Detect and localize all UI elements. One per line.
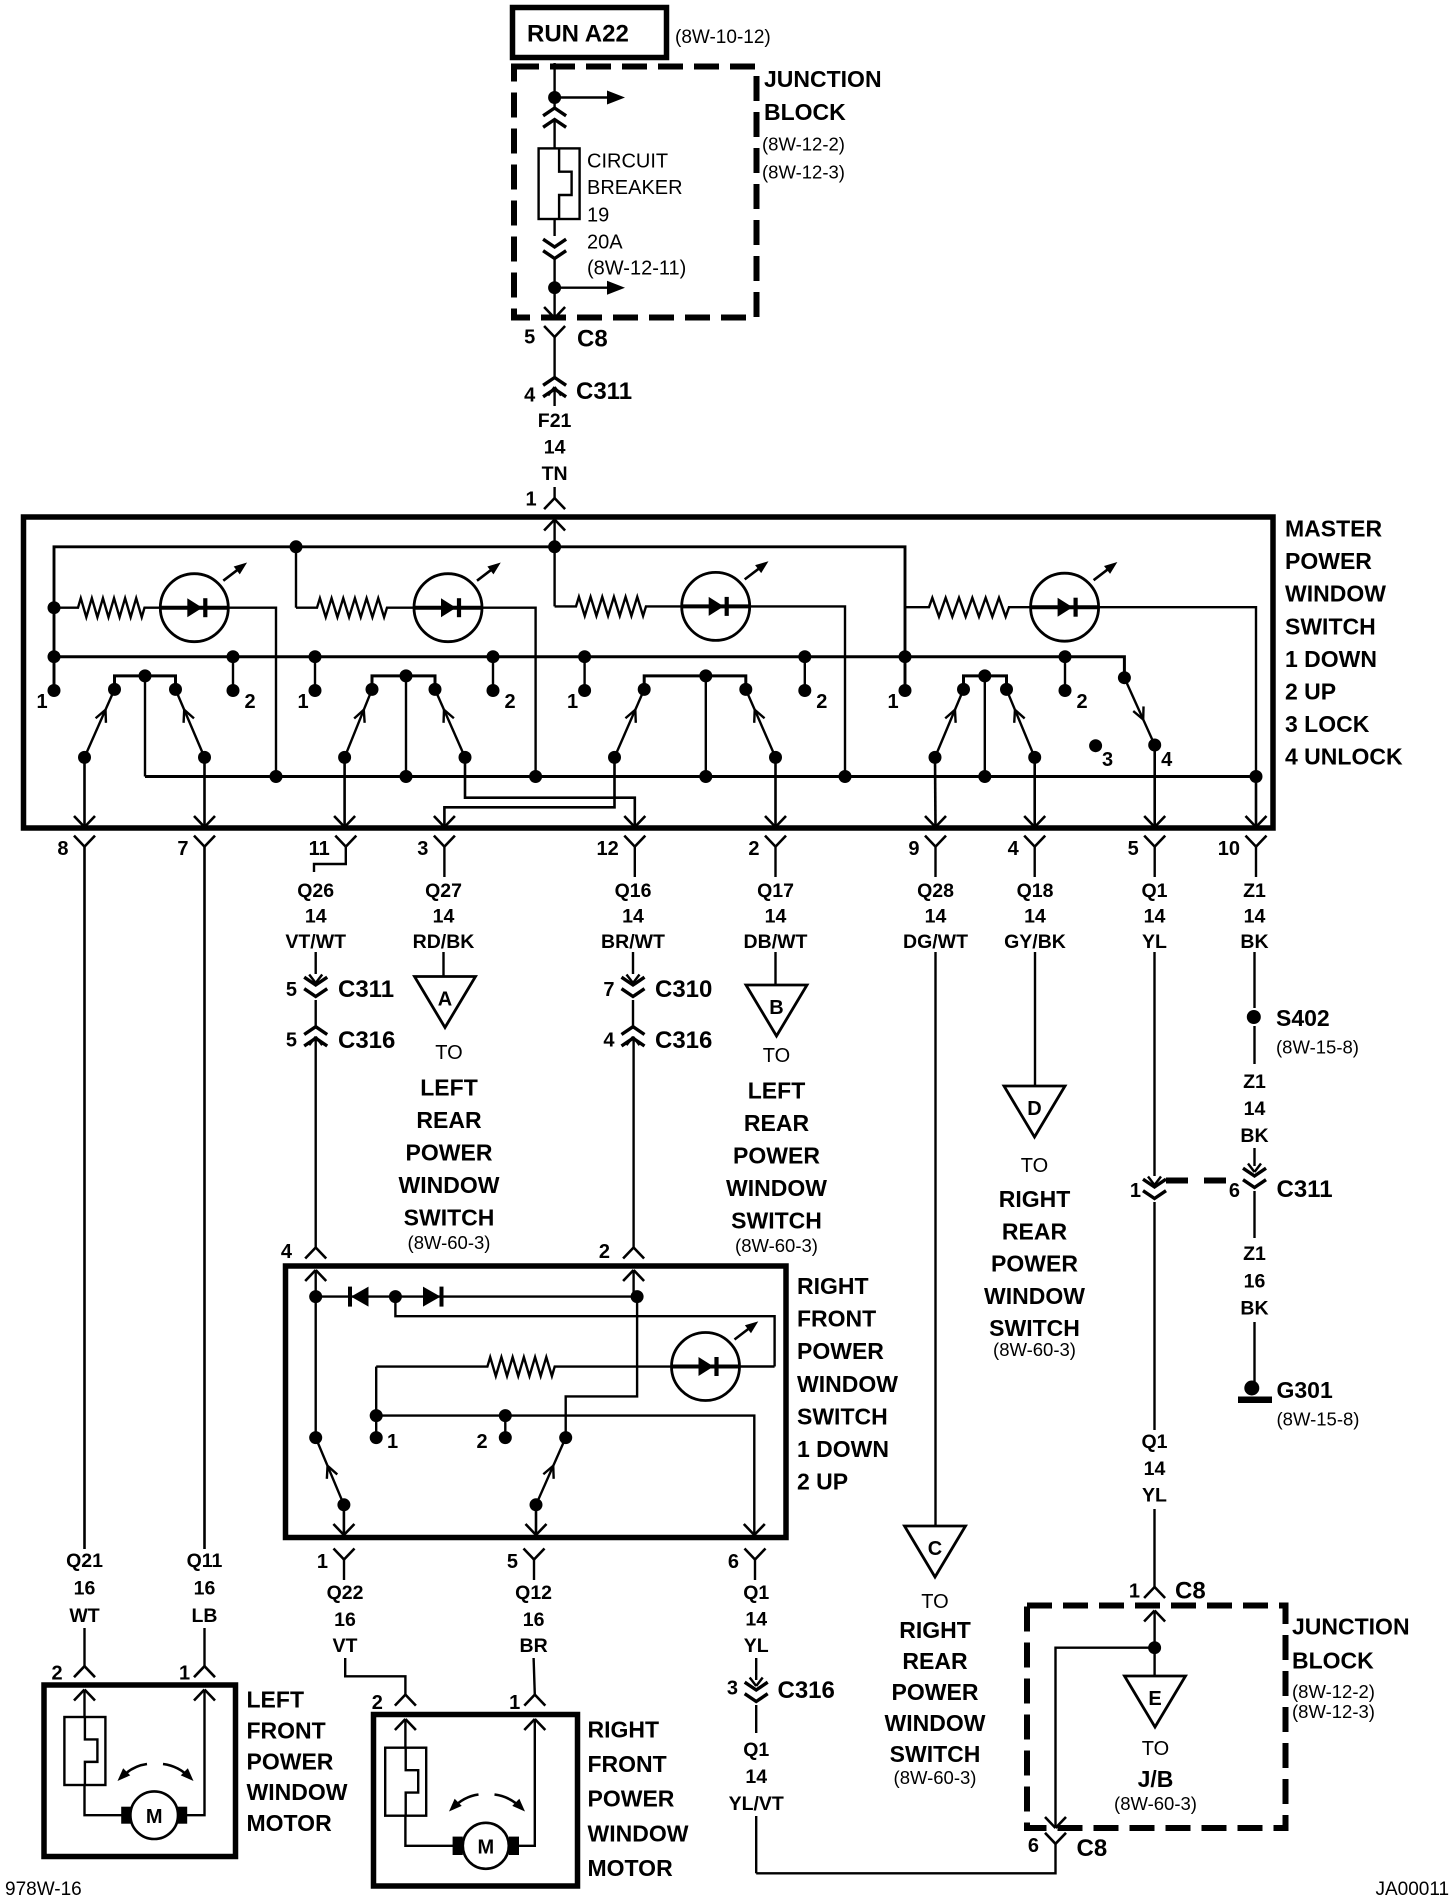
- off-page triangle C: [905, 1526, 966, 1577]
- svg-text:C311: C311: [1277, 1176, 1333, 1203]
- svg-text:4: 4: [1161, 749, 1173, 771]
- resistor unit2: [296, 598, 414, 617]
- wire rail1 to bottom bus: [144, 676, 146, 777]
- svg-text:YL: YL: [1142, 931, 1167, 953]
- motor circuit breaker (left): [64, 1717, 105, 1785]
- svg-text:C8: C8: [577, 326, 608, 353]
- motor M (left): [130, 1791, 178, 1839]
- wire resistor left lead down: [375, 1367, 377, 1416]
- dashed link to C311: [1166, 1178, 1188, 1184]
- terminal 2 stub: [499, 1409, 512, 1422]
- connector C311 pin 1 (Q1): [1148, 1177, 1155, 1186]
- wire to circuit breaker: [553, 121, 555, 148]
- svg-text:1: 1: [525, 489, 536, 511]
- svg-text:14: 14: [1144, 906, 1166, 928]
- svg-text:11: 11: [309, 838, 330, 860]
- arrow at motor box top (pin2): [74, 1690, 85, 1701]
- wire branch arrow right (upper): [555, 96, 607, 98]
- wire lamp3 output to bottom bus: [750, 606, 845, 776]
- svg-text:RIGHT: RIGHT: [899, 1617, 971, 1643]
- svg-text:8: 8: [57, 838, 68, 860]
- svg-text:1: 1: [317, 1551, 328, 1573]
- wire pin2 entry: [632, 1270, 634, 1297]
- wire pin4 stem: [1033, 847, 1035, 877]
- svg-text:MOTOR: MOTOR: [588, 1855, 674, 1881]
- svg-text:2: 2: [476, 1431, 487, 1453]
- switch arm right unit3: [746, 689, 776, 757]
- svg-text:TO: TO: [435, 1042, 462, 1064]
- node diode junction: [389, 1290, 402, 1303]
- switch arm lock/unlock (unit4 right): [1118, 671, 1131, 684]
- node top bus unit2: [290, 540, 303, 553]
- svg-text:14: 14: [305, 906, 327, 928]
- off-page triangle A: [415, 977, 476, 1028]
- switch rail unit3: [644, 676, 746, 690]
- connector chevrons (upper): [543, 108, 566, 116]
- off-page triangle B: [746, 985, 807, 1036]
- wire into junction block: [1153, 1611, 1155, 1677]
- illumination lamp (right front switch): [672, 1333, 740, 1401]
- svg-text:B: B: [769, 997, 783, 1019]
- wire pin 10 drop: [1255, 777, 1258, 828]
- terminal stub 2 at x804.8: [798, 650, 811, 663]
- motor M (right): [463, 1823, 509, 1869]
- terminal stub 2 at x233: [227, 650, 240, 663]
- svg-text:DB/WT: DB/WT: [744, 931, 808, 953]
- switch arm right unit1: [176, 689, 205, 757]
- svg-text:16: 16: [1244, 1271, 1266, 1293]
- svg-text:RIGHT: RIGHT: [999, 1186, 1071, 1212]
- svg-text:7: 7: [603, 979, 614, 1001]
- svg-text:Q1: Q1: [1141, 880, 1167, 902]
- svg-text:(8W-60-3): (8W-60-3): [1114, 1793, 1197, 1814]
- svg-text:2: 2: [244, 691, 255, 713]
- connector C311 pin 5 (Q26): [309, 975, 316, 984]
- wire pin2 into breaker (right): [404, 1719, 406, 1748]
- svg-text:2: 2: [504, 691, 515, 713]
- wire Q18 long: [1034, 952, 1036, 1086]
- connector C8 pin 1: [1144, 1587, 1155, 1598]
- svg-text:WINDOW: WINDOW: [247, 1779, 348, 1805]
- svg-text:4 UNLOCK: 4 UNLOCK: [1285, 744, 1403, 770]
- svg-text:RIGHT: RIGHT: [588, 1717, 660, 1743]
- wire pin2 vertical + jog to right switch: [566, 1297, 637, 1438]
- svg-text:2: 2: [748, 838, 759, 860]
- switch arm left unit3: [615, 689, 645, 757]
- junction block (bottom) dashed border: [1027, 1606, 1286, 1829]
- wire Q16 lower: [632, 1038, 634, 1248]
- terminal stub 1 at x54: [48, 650, 61, 663]
- svg-text:C316: C316: [338, 1027, 395, 1054]
- terminal stub 2 at x1065: [1059, 650, 1072, 663]
- circuit breaker 19 20A: [539, 148, 580, 219]
- wire Q27 to triangle A: [442, 952, 444, 977]
- svg-text:978W-16: 978W-16: [5, 1879, 82, 1900]
- node bottom bus x705.8: [699, 770, 712, 783]
- wire Q28 long: [934, 952, 936, 1526]
- bottom bus wire: [145, 775, 1256, 778]
- diode D1 (left-pointing): [351, 1287, 369, 1307]
- wire lamp2 output to bottom bus: [482, 608, 536, 777]
- wire pin7 stem: [203, 847, 206, 1549]
- svg-text:4: 4: [603, 1030, 615, 1052]
- wire pin5 stem: [1153, 847, 1155, 877]
- connector pin 5 below master switch: [1144, 836, 1155, 847]
- svg-text:1: 1: [179, 1663, 190, 1685]
- node J1: [548, 91, 561, 104]
- wire Q17 to triangle B: [774, 952, 776, 985]
- switch arm right unit4: [1007, 689, 1035, 757]
- wire pin12 stem: [634, 847, 636, 877]
- svg-text:D: D: [1027, 1098, 1041, 1120]
- svg-text:6: 6: [728, 1551, 739, 1573]
- wire pin 2 drop: [774, 758, 777, 827]
- node bottom bus x406: [400, 770, 413, 783]
- svg-text:16: 16: [194, 1578, 216, 1600]
- svg-text:Q21: Q21: [66, 1550, 103, 1572]
- wire unit3 feed: [553, 547, 555, 607]
- svg-text:Q22: Q22: [327, 1582, 364, 1604]
- svg-text:POWER: POWER: [1285, 548, 1372, 574]
- wire pin 3 drop (jog): [444, 758, 614, 827]
- wire motor to pin1: [178, 1690, 205, 1816]
- svg-text:WINDOW: WINDOW: [1285, 581, 1386, 607]
- terminal stub 1 at x584.6: [578, 650, 591, 663]
- svg-text:1 DOWN: 1 DOWN: [1285, 646, 1377, 672]
- arrow at motor box top (pin1): [194, 1690, 205, 1701]
- arrow at right motor box top (pin1): [524, 1719, 535, 1730]
- svg-text:(8W-15-8): (8W-15-8): [1276, 1037, 1359, 1058]
- off-page triangle D: [1004, 1086, 1065, 1137]
- resistor unit3: [555, 597, 682, 616]
- switch rail unit4: [964, 676, 1007, 690]
- svg-text:3: 3: [727, 1678, 738, 1700]
- svg-text:(8W-15-8): (8W-15-8): [1277, 1409, 1360, 1430]
- svg-text:4: 4: [1008, 838, 1020, 860]
- connector chevrons (lower): [543, 239, 566, 247]
- svg-text:CIRCUIT: CIRCUIT: [587, 151, 668, 173]
- wire rail2 to bottom bus: [405, 676, 407, 777]
- svg-text:5: 5: [524, 327, 535, 349]
- svg-text:12: 12: [597, 838, 619, 860]
- wire pin6 stem: [754, 1560, 756, 1581]
- svg-text:10: 10: [1218, 838, 1240, 860]
- connector pin 3 below master switch: [434, 836, 445, 847]
- wire Q16 mid: [632, 1000, 634, 1027]
- wire A22 feed into junction block: [553, 63, 555, 108]
- svg-text:LB: LB: [192, 1605, 218, 1627]
- terminal stub 1 at x905: [899, 650, 912, 663]
- contact dot 3 (lock): [1089, 739, 1102, 752]
- wire F21 14 TN: [553, 389, 555, 406]
- svg-text:POWER: POWER: [247, 1748, 334, 1774]
- wire Q26 upper: [315, 952, 317, 974]
- rotation arrows (right motor): [453, 1795, 479, 1809]
- connector pin 7 below master switch: [194, 836, 205, 847]
- wire Q1 upper: [1153, 952, 1155, 1176]
- wire pin2 into breaker: [83, 1690, 85, 1718]
- terminal stub 1 at x315: [309, 650, 322, 663]
- svg-text:Q1: Q1: [743, 1582, 769, 1604]
- svg-text:WINDOW: WINDOW: [399, 1172, 500, 1198]
- svg-text:POWER: POWER: [733, 1143, 820, 1169]
- arrow at master box top edge (pin 1 entry): [544, 520, 555, 531]
- wire Q22 jog to right motor: [345, 1658, 405, 1695]
- connector pin 12 below master switch: [624, 836, 635, 847]
- svg-text:LEFT: LEFT: [247, 1687, 305, 1713]
- svg-text:(8W-60-3): (8W-60-3): [894, 1767, 977, 1788]
- wire lamp1 output to bottom bus: [228, 608, 276, 777]
- switch arm left (right front switch): [309, 1431, 322, 1444]
- svg-text:3: 3: [1102, 749, 1113, 771]
- svg-text:Q17: Q17: [757, 880, 794, 902]
- terminal 1 stub: [375, 1416, 377, 1438]
- svg-text:6: 6: [1229, 1180, 1240, 1202]
- wire motor to pin1 (right): [519, 1719, 535, 1846]
- svg-text:14: 14: [622, 906, 644, 928]
- svg-text:16: 16: [74, 1578, 96, 1600]
- svg-text:1: 1: [387, 1431, 398, 1453]
- svg-text:YL/VT: YL/VT: [729, 1793, 784, 1815]
- switch rail unit2: [372, 676, 435, 690]
- svg-text:BK: BK: [1240, 1125, 1268, 1147]
- connector C316 pin 5 (Q26): [304, 1027, 327, 1035]
- svg-text:9: 9: [908, 838, 919, 860]
- svg-text:REAR: REAR: [902, 1648, 968, 1674]
- svg-text:MOTOR: MOTOR: [247, 1810, 333, 1836]
- svg-text:C311: C311: [338, 976, 394, 1003]
- svg-text:REAR: REAR: [416, 1107, 482, 1133]
- wire Q16 upper: [632, 952, 634, 974]
- connector pin 11 below master switch: [335, 836, 346, 847]
- wire Z1 upper: [1253, 952, 1255, 1008]
- motor circuit breaker (right): [385, 1748, 426, 1816]
- wire Q26 lower: [315, 1038, 317, 1248]
- svg-text:C: C: [928, 1538, 942, 1560]
- wire breaker to motor (right): [405, 1816, 462, 1846]
- svg-text:M: M: [477, 1837, 494, 1859]
- svg-text:1: 1: [1129, 1581, 1140, 1603]
- svg-text:RD/BK: RD/BK: [413, 931, 475, 953]
- svg-text:BLOCK: BLOCK: [764, 99, 846, 125]
- wire pin1 stem: [343, 1560, 345, 1581]
- svg-text:4: 4: [524, 385, 536, 407]
- svg-text:SWITCH: SWITCH: [1285, 613, 1376, 639]
- svg-text:Q11: Q11: [187, 1550, 223, 1572]
- svg-text:Z1: Z1: [1243, 1243, 1266, 1265]
- svg-text:3 LOCK: 3 LOCK: [1285, 711, 1370, 737]
- wire pin5 stem: [533, 1560, 535, 1581]
- svg-text:20A: 20A: [587, 232, 623, 254]
- svg-text:VT: VT: [333, 1635, 358, 1657]
- svg-text:2: 2: [1076, 691, 1087, 713]
- svg-text:JA00011: JA00011: [1376, 1879, 1450, 1900]
- rotation arrows (left motor): [121, 1764, 147, 1778]
- svg-text:TO: TO: [1021, 1155, 1048, 1177]
- wire Q11 lower: [203, 1628, 205, 1666]
- wire Q12 to right motor: [534, 1658, 535, 1695]
- svg-text:RUN A22: RUN A22: [527, 21, 629, 48]
- svg-text:WINDOW: WINDOW: [588, 1820, 689, 1846]
- svg-text:FRONT: FRONT: [588, 1751, 667, 1777]
- svg-text:2: 2: [51, 1663, 62, 1685]
- node bottom bus x984.8: [978, 770, 991, 783]
- svg-text:Q1: Q1: [1141, 1431, 1167, 1453]
- svg-text:4: 4: [281, 1241, 293, 1263]
- wire pin6 to C316: [755, 1658, 757, 1680]
- svg-text:C316: C316: [778, 1677, 835, 1704]
- diode bus wire: [316, 1295, 637, 1297]
- svg-text:16: 16: [334, 1609, 356, 1631]
- svg-text:C8: C8: [1175, 1578, 1206, 1605]
- wire YL/VT down to junction block run: [755, 1816, 757, 1873]
- svg-text:BK: BK: [1240, 1298, 1268, 1320]
- connector pin 10 below master switch: [1246, 836, 1257, 847]
- svg-text:14: 14: [1244, 1098, 1266, 1120]
- wire diode junction to lamp loop: [395, 1297, 774, 1367]
- svg-text:Q27: Q27: [425, 880, 462, 902]
- switch arm right unit2: [435, 689, 465, 757]
- svg-text:C310: C310: [655, 976, 712, 1003]
- node top bus unit3: [548, 540, 561, 553]
- wire pin 9 drop: [934, 757, 937, 827]
- arrow at junction block bottom edge: [544, 307, 555, 318]
- svg-text:POWER: POWER: [991, 1251, 1078, 1277]
- wire pin5 drop: [535, 1505, 538, 1535]
- svg-text:14: 14: [433, 906, 455, 928]
- node unit1 resistor junction: [48, 601, 61, 614]
- svg-text:1: 1: [567, 691, 578, 713]
- svg-text:Q12: Q12: [515, 1582, 552, 1604]
- connector pin 2 into right front switch: [623, 1248, 634, 1259]
- terminal stub 2 at x493: [487, 650, 500, 663]
- master power window switch box: [24, 517, 1274, 828]
- svg-text:(8W-12-2): (8W-12-2): [1292, 1681, 1375, 1702]
- wire Z1 to C311: [1253, 1148, 1255, 1166]
- svg-text:14: 14: [1144, 1458, 1166, 1480]
- connector pin 1 into right motor: [524, 1695, 535, 1706]
- off-page triangle E: [1125, 1676, 1186, 1727]
- svg-text:TO: TO: [1142, 1738, 1169, 1760]
- svg-text:MASTER: MASTER: [1285, 516, 1383, 542]
- illumination lamp unit4: [1031, 573, 1099, 641]
- splice S402: [1247, 1010, 1261, 1024]
- node diode bus right: [631, 1290, 644, 1303]
- connector pin 1 below right front switch: [334, 1549, 345, 1560]
- connector pin 5 below right front switch: [524, 1549, 535, 1560]
- junction block (top) dashed border: [514, 67, 757, 318]
- wire branch arrow right (lower): [555, 287, 607, 289]
- svg-text:2: 2: [816, 691, 827, 713]
- wire pin 12 drop (jog): [465, 756, 635, 827]
- svg-text:WINDOW: WINDOW: [726, 1175, 827, 1201]
- svg-text:BR: BR: [520, 1635, 548, 1657]
- connector pin 9 below master switch: [925, 836, 936, 847]
- wire pin4 entry: [315, 1270, 317, 1297]
- svg-text:POWER: POWER: [797, 1338, 884, 1364]
- svg-text:2: 2: [372, 1692, 383, 1714]
- switch arm left unit4: [935, 689, 964, 757]
- svg-text:16: 16: [523, 1609, 545, 1631]
- node bottom bus x1256: [1250, 770, 1263, 783]
- svg-text:TO: TO: [921, 1591, 948, 1613]
- svg-text:2: 2: [599, 1241, 610, 1263]
- connector pin 4 below master switch: [1024, 836, 1035, 847]
- wire Q26 mid: [315, 1000, 317, 1027]
- svg-text:RIGHT: RIGHT: [797, 1273, 869, 1299]
- svg-text:3: 3: [417, 838, 428, 860]
- svg-text:14: 14: [1244, 906, 1266, 928]
- svg-text:POWER: POWER: [892, 1679, 979, 1705]
- svg-text:14: 14: [765, 906, 787, 928]
- svg-text:(8W-12-11): (8W-12-11): [587, 258, 686, 280]
- svg-text:REAR: REAR: [1002, 1218, 1068, 1244]
- wire rail3 to bottom bus: [705, 676, 707, 777]
- fuse box RUN A22: [513, 8, 667, 58]
- svg-text:SWITCH: SWITCH: [731, 1208, 822, 1234]
- svg-text:LEFT: LEFT: [748, 1078, 806, 1104]
- wire to master switch pin 1: [553, 487, 555, 498]
- connector pin 2 into left motor: [74, 1666, 85, 1677]
- connector pin 2 into right motor: [395, 1695, 406, 1706]
- wire below C316: [755, 1705, 757, 1733]
- arrow at right motor box top (pin2): [395, 1719, 406, 1730]
- svg-text:Q1: Q1: [743, 1739, 769, 1761]
- wire pin9 stem: [934, 847, 936, 877]
- connector pin 6 below right front switch: [745, 1549, 756, 1560]
- svg-text:SWITCH: SWITCH: [797, 1403, 888, 1429]
- wire Z1 below splice: [1253, 1026, 1255, 1064]
- connector pin 4 into right front switch: [305, 1248, 316, 1259]
- svg-text:1: 1: [887, 691, 898, 713]
- svg-text:Q28: Q28: [917, 880, 954, 902]
- arrow at box top (pin4): [305, 1270, 316, 1281]
- terminal bus wire: [376, 1416, 754, 1535]
- arrow at box top (pin2): [623, 1270, 634, 1281]
- bus 2 wire: [54, 657, 1124, 678]
- connector C316 pin 3: [750, 1678, 757, 1687]
- wire pin4 vertical to left switch: [315, 1297, 317, 1438]
- svg-text:REAR: REAR: [744, 1110, 810, 1136]
- resistor unit1: [54, 598, 160, 617]
- svg-text:BLOCK: BLOCK: [1292, 1648, 1374, 1674]
- wire Q1 mid: [1153, 1202, 1155, 1430]
- wire pin 7 drop: [203, 757, 206, 827]
- diode D2 (right-pointing): [423, 1287, 441, 1307]
- left front power window motor box: [44, 1685, 236, 1857]
- svg-text:14: 14: [745, 1766, 767, 1788]
- svg-text:BREAKER: BREAKER: [587, 177, 683, 199]
- svg-text:WINDOW: WINDOW: [885, 1710, 986, 1736]
- svg-text:J/B: J/B: [1138, 1766, 1174, 1792]
- svg-text:Q26: Q26: [297, 880, 334, 902]
- svg-text:Z1: Z1: [1243, 880, 1266, 902]
- connector pin 1 into left motor: [194, 1666, 205, 1677]
- switch rail unit1: [115, 676, 176, 690]
- wire C8 pin6 to YL/VT run: [756, 1844, 1055, 1874]
- svg-text:BK: BK: [1240, 931, 1268, 953]
- wire Z1 16 BK upper: [1253, 1191, 1255, 1238]
- node terminal bus left: [370, 1409, 383, 1422]
- wire pin 4 drop: [1033, 757, 1036, 827]
- svg-text:SWITCH: SWITCH: [989, 1315, 1080, 1341]
- right front power window motor box: [374, 1715, 578, 1887]
- svg-text:(8W-12-3): (8W-12-3): [1292, 1701, 1375, 1722]
- svg-text:(8W-10-12): (8W-10-12): [675, 27, 771, 48]
- node junction block: [1148, 1641, 1161, 1654]
- illumination lamp unit3: [682, 572, 750, 640]
- connector C310 pin 7 (Q16): [627, 975, 634, 984]
